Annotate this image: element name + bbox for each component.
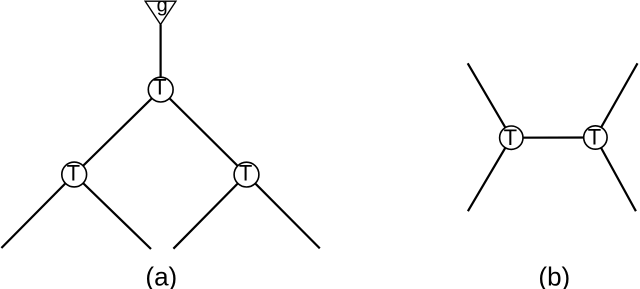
svg-text:(b): (b) <box>538 261 570 289</box>
wire: right node down-right leaf (a) <box>247 175 320 249</box>
node T right (b) <box>584 125 607 150</box>
svg-text:g: g <box>157 0 168 17</box>
svg-text:T: T <box>67 161 80 186</box>
wire: horizontal connector (b) <box>511 136 595 138</box>
node T top (a) <box>148 75 173 102</box>
wire: left node down-left leaf (a) <box>1 175 74 249</box>
node T left (b) <box>500 125 523 150</box>
svg-text:T: T <box>239 161 252 186</box>
svg-text:T: T <box>504 125 517 150</box>
wire: left node down-right leaf (a) <box>74 175 151 250</box>
svg-text:T: T <box>153 75 166 100</box>
wire: left node up-left (b) <box>468 63 512 137</box>
node T left (a) <box>62 161 87 187</box>
ground triangle g <box>145 0 176 25</box>
wire: right node down-left leaf (a) <box>173 175 246 249</box>
svg-text:T: T <box>588 125 601 150</box>
wire: top node to right node (a) <box>161 90 247 175</box>
node T right (a) <box>234 161 259 187</box>
wire: right node down-right (b) <box>595 138 636 212</box>
wire: left node down-left (b) <box>468 138 511 212</box>
wire: triangle apex to top node (a) <box>160 25 162 90</box>
wire: top node to left node (a) <box>74 90 161 175</box>
svg-text:(a): (a) <box>145 261 177 289</box>
wire: right node up-right (b) <box>595 63 637 137</box>
